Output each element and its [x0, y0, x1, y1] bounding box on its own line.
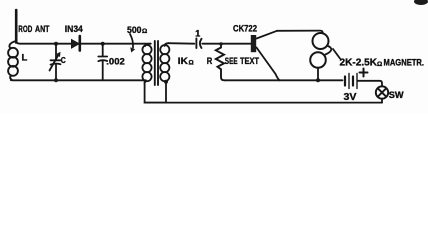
capacitor .002 branch wire bottom [102, 61, 104, 80]
variable capacitor C branch wire bottom [55, 65, 57, 81]
svg-text:500: 500 [127, 25, 142, 35]
wire battery to switch [358, 81, 382, 87]
wire transformer bottom U to ground rail [145, 81, 166, 103]
svg-text:.002: .002 [106, 57, 125, 68]
capacitor .002 branch wire top [102, 44, 104, 56]
arrow from 500 ohm label to transformer primary [130, 34, 133, 48]
transistor Q1 collector lead [257, 48, 280, 81]
wire top rail: antenna to transformer primary [16, 41, 150, 44]
wire bottom tank rail [11, 79, 146, 82]
capacitor .002 plates [98, 56, 107, 58]
wire supply rail R bottom to battery [225, 79, 343, 81]
svg-text:Ω: Ω [142, 28, 147, 35]
corner artifact blob top right [414, 0, 428, 5]
svg-text:L: L [22, 53, 28, 64]
svg-text:2K-2.5K: 2K-2.5K [340, 58, 378, 69]
wire headphones bottom to supply rail [317, 68, 319, 81]
svg-text:Ω: Ω [189, 60, 194, 67]
node junction dot at .002 capacitor top [101, 42, 105, 46]
transformer T1 primary winding [142, 44, 151, 84]
antenna ROD ANT rod [15, 10, 18, 43]
variable capacitor C plates [51, 59, 61, 61]
svg-text:SW: SW [389, 90, 404, 100]
wire secondary top to coupling capacitor [169, 42, 195, 45]
svg-text:SEE: SEE [225, 56, 238, 66]
battery B1 plates [344, 77, 346, 86]
svg-text:R: R [207, 56, 213, 66]
transistor Q1 CK722 base bar [251, 35, 256, 52]
svg-text:ANT: ANT [35, 24, 50, 35]
svg-text:1: 1 [195, 29, 200, 39]
headphones earpiece top [313, 33, 329, 49]
resistor R zigzag [216, 48, 225, 81]
leader line from headband to label [333, 49, 340, 59]
node junction dot at variable capacitor C top [54, 42, 58, 46]
svg-text:C: C [61, 55, 66, 65]
node junction dot at C bottom [54, 78, 58, 82]
node junction at resistor R top [220, 44, 222, 48]
svg-text:TEXT: TEXT [240, 56, 259, 66]
wire switch to ground rail [381, 99, 383, 103]
label + battery polarity [360, 69, 368, 77]
svg-text:3V: 3V [344, 92, 357, 103]
svg-text:ROD: ROD [18, 24, 32, 35]
variable capacitor C arrow [50, 56, 59, 71]
capacitor C2 "1" plates [195, 39, 197, 49]
wire emitter to headphones [277, 31, 323, 34]
svg-text:Ω: Ω [377, 61, 382, 68]
svg-text:CK722: CK722 [233, 24, 257, 34]
headphones headband curve [326, 46, 332, 55]
node junction dot headphones at rail [316, 78, 320, 82]
wire bottom ground rail [145, 102, 382, 104]
inductor L coil [8, 41, 18, 80]
wire coupling capacitor to transistor base [202, 43, 251, 45]
switch SW circle with X [376, 86, 388, 98]
diode D1 1N34 symbol [72, 40, 80, 48]
transistor Q1 emitter lead [257, 31, 278, 39]
variable capacitor C branch wire top [55, 44, 57, 60]
svg-text:IK: IK [178, 56, 188, 67]
transformer T1 core [154, 41, 156, 85]
headphones earpiece bottom [310, 52, 326, 68]
node junction dot at secondary bottom [164, 80, 168, 84]
transformer T1 secondary winding [160, 43, 169, 82]
svg-text:MAGNETR.: MAGNETR. [384, 58, 425, 69]
svg-text:IN34: IN34 [65, 24, 84, 35]
